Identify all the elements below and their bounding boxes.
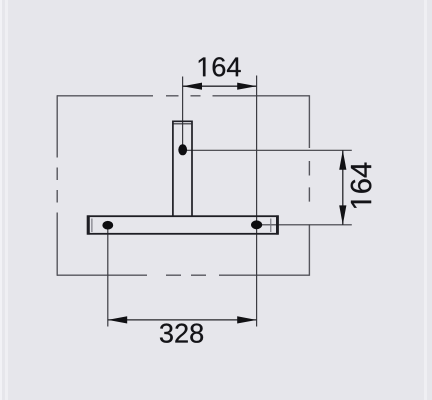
bar left inner cap line [91,219,93,233]
bar right inner cap line [270,219,272,233]
bar right end cap thick line [276,215,278,234]
right dimension top arrow [339,150,346,169]
extension line from stem hole right to side dimension [183,149,352,151]
extension line from stem hole up to top dimension [182,77,184,146]
top dimension left arrow [183,83,202,90]
bottom dimension right arrow [237,316,256,323]
bar right hole [251,220,262,229]
bottom dimension line 328 [108,319,257,321]
extension line from right bar hole right to side dimension [257,224,352,226]
dashed bounding box: top side [57,95,310,97]
dashed bounding box: bottom side [57,274,310,276]
bar (horizontal beam) outline [88,216,278,234]
top dimension right arrow [237,83,256,90]
right dimension line 164 [342,150,344,225]
dashed bounding box: right side [308,95,310,276]
top dimension text 164 [199,57,241,76]
bottom dimension left arrow [108,316,127,323]
bar left hole [102,221,113,230]
stem inner top line [174,123,192,125]
bar left end cap thick line [87,215,89,234]
left edge light strips [0,0,2,400]
extension line through right bar hole (top dim right + bottom dim right) [256,76,258,327]
right dimension text 164 (rotated) [351,163,372,208]
bottom dimension text 328 [160,324,203,343]
right edge light strip [424,0,427,400]
right dimension bottom arrow [339,205,346,224]
stem hole [178,144,187,155]
dashed bounding box: left side [56,95,58,276]
stem (vertical post) outline [173,121,192,215]
top dimension line 164 [183,85,257,87]
extension line from left bar hole down to bottom dimension [107,227,109,327]
